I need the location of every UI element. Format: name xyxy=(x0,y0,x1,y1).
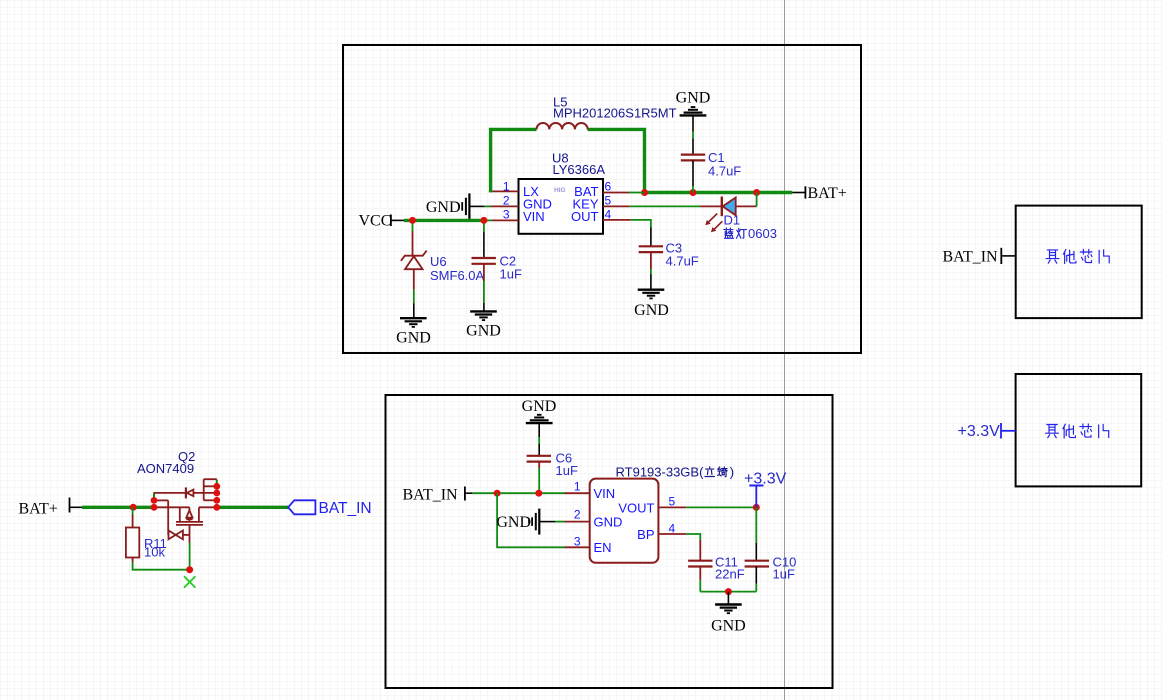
wire C6 bottom stem xyxy=(538,462,540,494)
wire C11 bottom stem xyxy=(699,567,701,580)
body diode triangle xyxy=(187,490,194,497)
gate bar xyxy=(176,524,203,526)
ground below C11/C10 xyxy=(715,605,742,614)
bowtie to gate xyxy=(183,534,190,536)
other-chip box 2 xyxy=(1016,374,1142,486)
wire gate net vertical xyxy=(189,543,191,570)
netflag BAT+ (bottom) xyxy=(19,498,83,518)
body arrow bar xyxy=(186,518,192,520)
wire BAT+ bus to Q2 source (thick green) xyxy=(82,506,154,509)
junction BAT_IN-C6 xyxy=(535,490,542,497)
svg-text:GND: GND xyxy=(522,398,557,415)
pin 6 stub wire xyxy=(603,192,645,194)
wire VIN net xyxy=(472,492,590,494)
other-chip box 1 xyxy=(1016,206,1142,319)
source pin stub green xyxy=(153,492,155,497)
svg-text:BAT+: BAT+ xyxy=(808,185,847,202)
svg-text:VCC: VCC xyxy=(359,213,392,230)
svg-text:LY6366A: LY6366A xyxy=(553,162,606,177)
svg-text:4.7uF: 4.7uF xyxy=(666,254,699,269)
svg-text:+3.3V: +3.3V xyxy=(958,423,1001,440)
svg-text:1uF: 1uF xyxy=(773,567,795,582)
block frame LDO xyxy=(386,395,833,688)
ground below C2 xyxy=(470,311,497,320)
junction VCC-C2 xyxy=(480,217,487,224)
svg-text:RT9193-33GB(: RT9193-33GB( xyxy=(616,465,705,480)
junction Q2 drain pins xyxy=(213,483,220,511)
wire BAT+ bus (thick green) xyxy=(645,191,793,194)
svg-text:1uF: 1uF xyxy=(556,463,578,478)
ground flag above C1 xyxy=(680,107,707,115)
svg-text:GND: GND xyxy=(711,618,746,635)
svg-text:OUT: OUT xyxy=(571,209,599,224)
wire C6 top stem xyxy=(538,423,540,455)
svg-text:5: 5 xyxy=(605,194,612,208)
drain contact stub xyxy=(198,507,200,522)
svg-text:): ) xyxy=(730,465,734,480)
svg-text:3: 3 xyxy=(503,208,510,222)
junction VOUT-C10 xyxy=(753,504,760,511)
wire C10 top stem xyxy=(755,507,757,560)
netflag VCC xyxy=(359,213,405,230)
transistor Q2 PMOS symbol xyxy=(154,479,217,542)
svg-text:U6: U6 xyxy=(430,254,447,269)
page boundary line xyxy=(784,0,786,700)
wire VOUT net xyxy=(658,506,756,508)
gate zener bowtie right xyxy=(176,531,183,540)
wire BP net xyxy=(658,534,700,560)
svg-text:GND: GND xyxy=(396,330,431,347)
svg-text:VIN: VIN xyxy=(523,209,545,224)
ground flag at U8 pin2 xyxy=(426,193,519,219)
source contact stub xyxy=(179,507,181,522)
body arrow to channel xyxy=(188,519,190,522)
ground below U6 xyxy=(400,318,427,327)
capacitor C11 xyxy=(688,561,712,567)
svg-text:10k: 10k xyxy=(144,545,165,560)
netflag BAT_IN (right) xyxy=(943,248,1016,266)
wire C3 bottom stem xyxy=(650,252,652,290)
svg-text:BP: BP xyxy=(637,527,654,542)
capacitor C10 xyxy=(745,561,769,567)
svg-text:1uF: 1uF xyxy=(500,267,522,282)
svg-text:BAT_IN: BAT_IN xyxy=(403,487,459,504)
wire C10 bottom stem xyxy=(755,567,757,584)
wire C2 bottom stem xyxy=(483,264,485,312)
wire Q2 drain to BAT_IN port (thick green) xyxy=(217,506,288,509)
netflag +3.3V (right) xyxy=(958,423,1016,440)
junction rail-GND xyxy=(725,588,732,595)
wire C1 bottom stem xyxy=(692,160,694,192)
svg-text:4.7uF: 4.7uF xyxy=(708,164,741,179)
no-connect cross xyxy=(184,576,195,587)
value landeng0603 (CJK drawn) xyxy=(724,228,746,238)
drain comb rail xyxy=(203,479,205,500)
ground below C3 xyxy=(638,290,665,299)
svg-text:GND: GND xyxy=(634,302,669,319)
body diode cathode bar xyxy=(185,487,187,498)
svg-text:D1: D1 xyxy=(724,213,741,228)
svg-text:0603: 0603 xyxy=(748,226,777,241)
wire VCC to pin3 xyxy=(484,219,519,221)
ground flag at U? pin2 GND (LDO) xyxy=(496,509,589,535)
body arrow xyxy=(186,510,192,517)
junction bus-D1 xyxy=(753,189,760,196)
op-amp U8 chip body xyxy=(519,179,604,234)
body diode wire xyxy=(154,492,186,494)
wire R11 to gate net xyxy=(133,562,190,570)
inductor L5 xyxy=(537,123,588,129)
svg-text:GND: GND xyxy=(594,515,623,530)
wire LX loop to L5 (thick green) xyxy=(491,129,537,191)
svg-text:GND: GND xyxy=(426,199,461,216)
text qitaxinpian 2 (CJK drawn) xyxy=(1046,424,1109,438)
junction BAT_IN-EN xyxy=(494,490,501,497)
junction BAT+-R11 xyxy=(130,504,137,511)
wire C2 top stem xyxy=(483,224,485,258)
svg-text:6: 6 xyxy=(605,180,612,194)
drain bottom connect xyxy=(199,506,217,508)
svg-text:EN: EN xyxy=(594,540,612,555)
svg-text:5: 5 xyxy=(669,495,676,509)
svg-text:AON7409: AON7409 xyxy=(137,461,194,476)
body diode to drain xyxy=(193,492,216,494)
netflag +3.3V (middle) xyxy=(744,471,787,508)
channel bar xyxy=(176,521,203,523)
wire ground rail C11-C10 xyxy=(700,591,756,593)
svg-text:2: 2 xyxy=(574,508,581,522)
block frame boost converter xyxy=(343,45,861,353)
wire C1 top stem xyxy=(692,116,694,154)
ground flag above C6 xyxy=(526,415,553,423)
svg-text:GND: GND xyxy=(466,323,501,340)
svg-text:2: 2 xyxy=(503,194,510,208)
source line 1 xyxy=(154,499,168,501)
text qitaxinpian 1 (CJK drawn) xyxy=(1046,249,1109,263)
capacitor C2 xyxy=(472,258,496,264)
regulator U7 chip body RT9193 xyxy=(590,479,659,563)
svg-text:SMF6.0A: SMF6.0A xyxy=(430,268,485,283)
netflag BAT+ xyxy=(792,185,847,202)
junction VCC-U6 xyxy=(409,217,416,224)
wire OUT net pin4 to C3 xyxy=(603,220,651,246)
junction bus-C1 xyxy=(690,189,697,196)
gate zener bowtie left xyxy=(169,531,176,540)
netflag BAT_IN (middle) xyxy=(403,487,473,504)
svg-text:22nF: 22nF xyxy=(715,567,745,582)
wire KEY net pin5 to D1 xyxy=(603,205,700,207)
svg-text:3: 3 xyxy=(574,535,581,549)
netport BAT_IN (pentagon) xyxy=(288,500,372,517)
junction Q2 source pins xyxy=(151,497,158,511)
junction bus-L5 xyxy=(641,189,648,196)
svg-text:BAT+: BAT+ xyxy=(19,501,58,518)
capacitor C3 xyxy=(639,246,663,252)
LED D1 xyxy=(700,193,757,233)
pin 1 stub wire xyxy=(489,190,519,192)
svg-text:MPH201206S1R5MT: MPH201206S1R5MT xyxy=(553,106,677,121)
resistor R11 xyxy=(126,507,139,562)
diode U6 zener xyxy=(401,224,427,319)
drain finger 1 xyxy=(204,478,217,480)
junction gate net xyxy=(186,566,193,573)
wire L5 right to BAT bus (thick green) xyxy=(588,129,645,192)
wire EN net xyxy=(497,493,590,547)
wire GND stem (rail) xyxy=(727,592,729,605)
drain finger 3 xyxy=(204,499,217,501)
svg-text:HIG: HIG xyxy=(554,187,566,194)
svg-text:GND: GND xyxy=(676,90,711,107)
svg-text:BAT_IN: BAT_IN xyxy=(319,500,372,517)
gate vertical xyxy=(189,525,191,543)
source drop to gate zener xyxy=(167,500,169,535)
svg-text:1: 1 xyxy=(574,480,581,494)
capacitor C6 xyxy=(527,456,551,462)
drain pin stub green xyxy=(216,480,218,484)
wire VCC bus (thick green) xyxy=(404,219,484,222)
body arrow stub xyxy=(188,507,190,510)
svg-text:GND: GND xyxy=(496,514,531,531)
source rail xyxy=(154,506,190,508)
svg-text:VIN: VIN xyxy=(594,486,616,501)
capacitor C1 xyxy=(681,155,705,161)
svg-text:BAT_IN: BAT_IN xyxy=(943,249,999,266)
drain finger 2 xyxy=(204,485,217,487)
svg-text:VOUT: VOUT xyxy=(618,501,654,516)
